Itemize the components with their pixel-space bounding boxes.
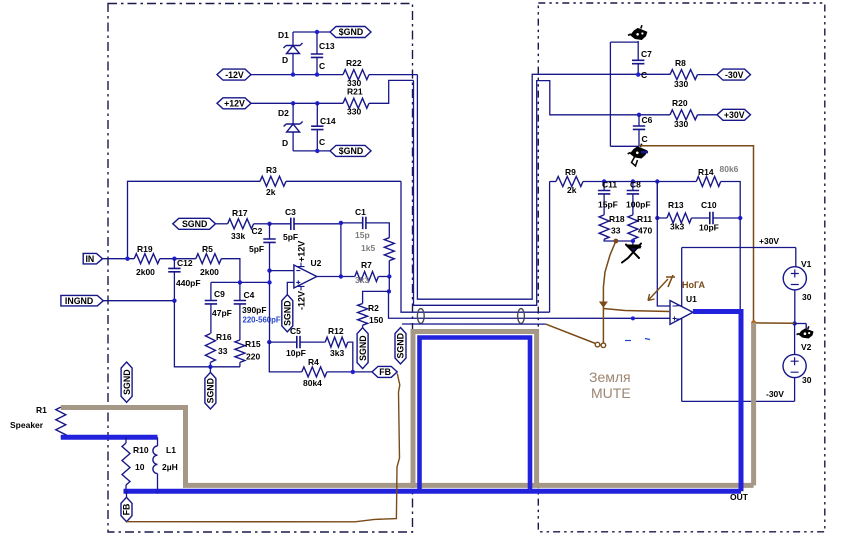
brown junction dot mute/gray	[751, 320, 756, 325]
junction dot FB node	[351, 370, 355, 374]
junction dot on U1 +input wire	[631, 316, 635, 320]
crossed-out power symbol at C7 top	[631, 29, 647, 40]
wire -30V supply rail bottom	[682, 400, 795, 402]
resistor R (1k5)	[384, 238, 394, 261]
svg-text:220-560pF: 220-560pF	[243, 316, 281, 325]
wire C14 top	[316, 103, 318, 126]
resistor R13	[667, 213, 692, 223]
port SGND (mute link)	[395, 328, 406, 365]
junction dot R11 bottom	[631, 239, 635, 243]
voltage source V1	[783, 267, 806, 290]
svg-text:C1: C1	[355, 207, 366, 217]
svg-text:$GND: $GND	[339, 27, 363, 37]
port FB (right)	[372, 366, 397, 377]
resistor R9	[556, 177, 583, 187]
junction dot C14 bottom	[315, 149, 319, 153]
svg-text:C: C	[319, 61, 325, 71]
svg-text:R14: R14	[698, 167, 714, 177]
svg-text:R16: R16	[216, 332, 232, 342]
svg-text:C12: C12	[177, 258, 193, 268]
port SGND (shunt)	[205, 372, 216, 409]
wire C9 top	[210, 282, 212, 300]
wire mute link brown section	[546, 324, 596, 343]
svg-text:2k: 2k	[567, 185, 577, 195]
inductor L1	[157, 437, 159, 446]
brown mute tap dot	[614, 239, 619, 244]
wire 1k5 bottom	[388, 261, 390, 277]
svg-text:33: 33	[611, 226, 621, 236]
wire +12V rail	[251, 102, 343, 104]
resistor R19	[134, 254, 160, 264]
svg-text:C9: C9	[214, 289, 225, 299]
thick blue output loop	[420, 338, 531, 492]
capacitor C14	[311, 126, 323, 129]
svg-text:R13: R13	[668, 200, 684, 210]
capacitor C2	[263, 239, 275, 242]
junction dot C4 top	[238, 280, 242, 284]
wire C3 right	[294, 223, 341, 225]
resistor R7	[355, 272, 379, 282]
svg-text:SGND: SGND	[283, 300, 293, 325]
right module dashed boundary box	[538, 3, 825, 532]
wire C5 to R12	[300, 341, 325, 343]
svg-text:80k4: 80k4	[303, 378, 322, 388]
wire bottom gnd rail	[293, 150, 330, 152]
svg-text:330: 330	[674, 119, 688, 129]
svg-text:80k6: 80k6	[720, 164, 739, 174]
resistor R20	[670, 110, 698, 120]
wire FB stub	[126, 491, 128, 497]
thick gray riser to mute gnd	[751, 323, 756, 486]
thick blue output bottom wire	[124, 489, 742, 494]
wire feedback down to output	[739, 218, 741, 310]
wire C12 node down to gnd rail	[174, 301, 240, 367]
svg-text:390pF: 390pF	[242, 305, 267, 315]
svg-text:R4: R4	[308, 357, 319, 367]
svg-text:220: 220	[246, 352, 260, 362]
svg-text:C14: C14	[320, 116, 336, 126]
resistor R17	[228, 219, 254, 229]
wire D2 anode to gnd rail	[292, 132, 294, 151]
svg-text:5pF: 5pF	[283, 232, 298, 242]
wire V2 top	[794, 324, 796, 355]
svg-text:R15: R15	[245, 339, 261, 349]
op-amp U2	[294, 265, 317, 288]
wire SGND stub (shunt)	[209, 367, 211, 373]
wire D2 cathode	[292, 103, 294, 124]
wire V1 bottom to midpoint	[794, 290, 796, 324]
svg-text:U2: U2	[311, 258, 322, 268]
svg-text:C: C	[319, 137, 325, 147]
svg-text:2k: 2k	[266, 187, 276, 197]
wire IN to R19	[103, 258, 135, 260]
junction dot R13 branch	[655, 179, 659, 183]
wire C12 bottom	[173, 272, 175, 301]
wire R3 left	[128, 181, 261, 258]
resistor R11	[628, 215, 638, 239]
wire R10 bottom	[125, 485, 127, 491]
wire C1 right corner	[366, 223, 389, 238]
annotation arrow (brown)	[648, 279, 668, 301]
svg-text:33: 33	[218, 346, 228, 356]
junction dot C1 left	[339, 221, 343, 225]
junction dot C11 top	[602, 179, 606, 183]
svg-text:D2: D2	[278, 108, 289, 118]
svg-text:330: 330	[674, 79, 688, 89]
thick blue speaker wire	[61, 435, 158, 440]
capacitor C8	[627, 191, 639, 194]
wire C7 top loop	[637, 41, 639, 60]
thick gray speaker return wire	[61, 408, 754, 486]
svg-text:-12V: -12V	[225, 70, 244, 80]
svg-text:D: D	[282, 55, 288, 65]
wire C10 to feedback node	[713, 217, 740, 219]
U2 V- power pin	[298, 286, 305, 290]
junction dot C6/+30V rail	[637, 113, 641, 117]
svg-text:1k5: 1k5	[361, 243, 375, 253]
svg-text:+30V: +30V	[724, 110, 745, 120]
svg-text:D1: D1	[278, 30, 289, 40]
wire mute gnd from C6 (brown)	[639, 146, 754, 323]
voltage source V2	[783, 354, 806, 377]
svg-text:C2: C2	[252, 226, 263, 236]
svg-text:R22: R22	[346, 58, 362, 68]
svg-text:3k3: 3k3	[355, 275, 369, 285]
svg-text:150: 150	[369, 315, 383, 325]
wire C11 to R18	[603, 194, 605, 215]
wire U2 output	[317, 276, 355, 278]
svg-text:MUTE: MUTE	[591, 385, 631, 401]
junction dot R7/1k5	[387, 274, 391, 278]
capacitor C7	[632, 60, 644, 63]
wire brown FB return	[127, 374, 400, 522]
capacitor C3	[291, 218, 294, 230]
junction dot U2 inv input	[267, 268, 271, 272]
junction dot R2 branch	[387, 289, 391, 293]
svg-text:C: C	[642, 134, 648, 144]
svg-text:100pF: 100pF	[626, 200, 651, 210]
wire C11 top stub	[603, 182, 605, 191]
wire U1 V+ rail down	[681, 248, 683, 402]
svg-text:R11: R11	[637, 214, 652, 224]
wire C4 bottom	[239, 304, 241, 340]
wire R17 to C2 node	[254, 223, 270, 225]
junction dot L1 bottom	[155, 489, 160, 494]
svg-text:R17: R17	[232, 208, 248, 218]
svg-text:НоГА: НоГА	[682, 280, 706, 290]
wire R18/R11 bottom rail	[604, 239, 633, 247]
crossed-out power symbol at C6 bottom	[631, 147, 647, 158]
svg-text:U1: U1	[686, 294, 697, 304]
svg-text:V2: V2	[801, 342, 812, 352]
svg-text:330: 330	[347, 107, 361, 117]
svg-text:R10: R10	[133, 445, 149, 455]
junction dot C14/+12V	[315, 101, 319, 105]
mute wire end circle	[595, 342, 600, 347]
resistor R16	[205, 334, 215, 363]
port -12V	[217, 69, 251, 80]
svg-text:$GND: $GND	[339, 146, 363, 156]
wire C6 bottom	[638, 129, 640, 146]
svg-text:15p: 15p	[355, 230, 370, 240]
svg-text:SGND: SGND	[358, 335, 368, 360]
port IN	[83, 253, 102, 264]
svg-text:C11: C11	[602, 180, 617, 190]
wire brown mute drop	[603, 241, 616, 343]
wire C14 bottom	[316, 130, 318, 151]
svg-text:C13: C13	[319, 41, 335, 51]
capacitor C11	[598, 191, 610, 194]
junction dot shunt gnd	[208, 365, 212, 369]
svg-text:440pF: 440pF	[176, 278, 201, 288]
wire R9 stub	[550, 181, 556, 183]
resistor R12	[325, 337, 348, 347]
wire C13 top	[316, 32, 318, 54]
wire R20 to port	[698, 114, 718, 116]
capacitor C13	[311, 54, 323, 57]
wire C2 down	[269, 242, 271, 342]
wire R4 right	[327, 371, 372, 373]
wire C4 top stub	[239, 282, 241, 300]
wire -12V link to right module	[417, 74, 670, 299]
svg-text:D: D	[282, 138, 288, 148]
wire brown mute to U1 input	[603, 309, 670, 312]
svg-text:2k00: 2k00	[136, 267, 155, 277]
wire R3 node link to R9	[401, 181, 550, 312]
wire R19 to C12	[160, 258, 196, 260]
svg-text:FB: FB	[379, 367, 391, 377]
svg-text:R9: R9	[565, 167, 576, 177]
wire R22 to down-link	[369, 74, 417, 76]
wire C5 left	[269, 341, 297, 343]
resistor R8	[670, 70, 698, 80]
port FB (bottom left)	[121, 497, 132, 521]
svg-text:C10: C10	[701, 200, 717, 210]
junction dot U2 out branch	[339, 274, 343, 278]
wire SGND to R17	[216, 223, 228, 225]
svg-text:C4: C4	[244, 290, 255, 300]
crossed-out ground below R11	[628, 247, 641, 252]
junction dot C12/INGND	[172, 299, 176, 303]
zener diode D2	[284, 122, 303, 127]
junction dot feedback node	[738, 216, 742, 220]
wire inverting node down to U1	[657, 182, 670, 307]
svg-text:INGND: INGND	[65, 296, 93, 306]
svg-text:FB: FB	[122, 504, 132, 516]
port SGND (fb net)	[173, 218, 216, 229]
wire C2 top stub	[269, 224, 271, 239]
port +30V	[717, 109, 751, 120]
port SGND (U2 +in)	[282, 295, 293, 332]
capacitor C1	[363, 217, 366, 229]
svg-text:SGND: SGND	[182, 219, 207, 229]
svg-text:R18: R18	[609, 214, 625, 224]
wire R5 to C4 corner	[221, 259, 240, 283]
wire R10 top	[125, 437, 127, 443]
wire -12V rail	[251, 74, 343, 76]
junction dot shunt node	[267, 280, 271, 284]
svg-text:R1: R1	[36, 405, 47, 415]
resistor R15	[235, 340, 245, 362]
svg-text:15pF: 15pF	[598, 200, 618, 210]
junction dot D2/+12V	[291, 101, 295, 105]
wire R2 bottom stub	[362, 325, 364, 328]
svg-text:C3: C3	[285, 207, 296, 217]
junction dot C12 top	[172, 257, 176, 261]
svg-text:R5: R5	[202, 244, 213, 254]
wire node to R13	[657, 182, 667, 219]
wire C6 top	[638, 115, 640, 126]
junction dot C13/-12V	[315, 72, 319, 76]
wire to U2 inverting input	[270, 270, 294, 272]
wire +30V supply rail top	[682, 247, 796, 249]
ferrite bead right	[518, 309, 525, 324]
wire shunt rail	[211, 281, 270, 283]
wire U1 noninverting input (from FB divider)	[389, 291, 671, 318]
port -30V	[717, 69, 751, 80]
port INGND	[61, 295, 103, 306]
wire R12 right corner	[348, 342, 353, 372]
wire R8 to port	[698, 74, 718, 76]
annotation 7 (handwritten)	[666, 275, 675, 287]
svg-text:+12V: +12V	[297, 241, 307, 262]
port $GND (bottom)	[330, 145, 371, 156]
svg-text:5pF: 5pF	[249, 244, 264, 254]
wire C9 bottom	[210, 304, 212, 334]
small blue tick 1	[625, 340, 631, 342]
svg-text:-30V: -30V	[766, 389, 784, 399]
svg-text:+30V: +30V	[759, 236, 779, 246]
svg-text:C8: C8	[630, 180, 641, 190]
wire R21 to up-jog	[369, 80, 414, 103]
svg-text:2k00: 2k00	[200, 267, 219, 277]
svg-text:33k: 33k	[231, 231, 245, 241]
junction dot supply midpoint	[792, 321, 796, 325]
port SGND (R2)	[357, 328, 368, 369]
brown arrowhead on mute node	[600, 302, 607, 307]
junction dot R13 left	[655, 216, 659, 220]
crossed-out ground at supply midpoint	[805, 324, 807, 330]
U2 V+ power pin	[298, 263, 305, 267]
port SGND (speaker gnd)	[121, 362, 132, 402]
svg-text:OUT: OUT	[730, 492, 749, 502]
svg-text:-30V: -30V	[725, 70, 744, 80]
svg-text:R21: R21	[347, 87, 363, 97]
zener diode D1	[284, 43, 303, 48]
wire U2 +input to SGND	[287, 282, 294, 294]
wire U2 out up to C1	[340, 223, 342, 277]
svg-text:Земля: Земля	[589, 369, 631, 385]
svg-text:R3: R3	[266, 165, 277, 175]
wire V1 top	[795, 248, 797, 268]
wire C8 top stub	[632, 182, 634, 191]
capacitor C4	[234, 301, 246, 304]
junction dot R3/IN	[125, 257, 129, 261]
small blue tick 2	[645, 339, 650, 340]
wire R14 to C10 node	[721, 182, 741, 219]
wire C8 to R11	[632, 194, 634, 215]
resistor R22	[343, 70, 369, 80]
capacitor C6	[633, 126, 645, 129]
junction dot R10 bottom	[124, 489, 129, 494]
wire C13 bottom	[316, 57, 318, 74]
thick gray loop	[413, 332, 537, 486]
capacitor C9	[205, 301, 217, 304]
wire C5 node down to R4	[269, 342, 302, 372]
svg-text:R12: R12	[328, 326, 344, 336]
resistor R18	[599, 215, 609, 239]
svg-text:R8: R8	[675, 58, 686, 68]
resistor R2	[358, 304, 368, 326]
capacitor C5	[297, 336, 300, 348]
svg-text:SGND: SGND	[396, 333, 406, 358]
resistor R1 (speaker)	[56, 407, 66, 437]
junction dot C5 node	[267, 340, 271, 344]
svg-text:10pF: 10pF	[286, 348, 306, 358]
junction dot C7/-30V rail	[636, 72, 640, 76]
wire inverting node rail	[583, 181, 696, 183]
junction dot C8 top	[631, 179, 635, 183]
resistor R21	[343, 98, 369, 108]
wire R7 right	[378, 276, 389, 278]
resistor R4	[302, 367, 327, 377]
svg-text:SGND: SGND	[122, 369, 132, 394]
svg-text:R2: R2	[368, 303, 379, 313]
junction dot C13 top	[315, 30, 319, 34]
svg-text:+12V: +12V	[224, 99, 245, 109]
svg-text:R19: R19	[137, 244, 153, 254]
wire $GND top rail	[293, 31, 330, 33]
op-amp U1	[670, 301, 693, 325]
wire midpoint stub to ground	[795, 323, 807, 325]
ferrite bead left	[417, 309, 424, 324]
thick blue U1 output wire	[693, 312, 741, 492]
wire SGND mute link	[402, 323, 546, 325]
wire R9 input corner	[549, 182, 551, 313]
svg-text:30: 30	[802, 375, 812, 385]
resistor R14	[696, 177, 720, 187]
svg-text:10: 10	[135, 462, 145, 472]
svg-text:R7: R7	[361, 260, 372, 270]
wire R13 to C10	[692, 217, 710, 219]
wire brown mute gnd to midpoint	[754, 322, 795, 324]
resistor R5	[196, 254, 222, 264]
junction dot C2 top	[267, 222, 271, 226]
wire D1 anode to -12V rail	[292, 54, 294, 75]
capacitor C10	[710, 212, 713, 224]
svg-text:V1: V1	[801, 259, 812, 269]
svg-text:L1: L1	[166, 445, 176, 455]
svg-text:C: C	[641, 70, 647, 80]
svg-text:SGND: SGND	[206, 378, 216, 403]
wire to R2	[363, 291, 389, 303]
port $GND (top)	[330, 27, 371, 38]
wire C1 left	[341, 222, 363, 224]
wire D1 cathode to top rail	[292, 32, 294, 46]
svg-text:47pF: 47pF	[212, 308, 232, 318]
svg-text:2µH: 2µH	[162, 462, 178, 472]
svg-text:10pF: 10pF	[699, 223, 719, 233]
wire V2 bottom	[794, 378, 796, 402]
svg-text:C6: C6	[642, 115, 653, 125]
svg-text:C5: C5	[290, 326, 301, 336]
wire INGND rail	[103, 300, 174, 302]
capacitor C12	[168, 268, 180, 271]
svg-text:IN: IN	[85, 254, 94, 264]
resistor R3	[260, 176, 286, 186]
junction dot D1/-12V	[291, 72, 295, 76]
U1 power pin ticks	[676, 306, 682, 319]
